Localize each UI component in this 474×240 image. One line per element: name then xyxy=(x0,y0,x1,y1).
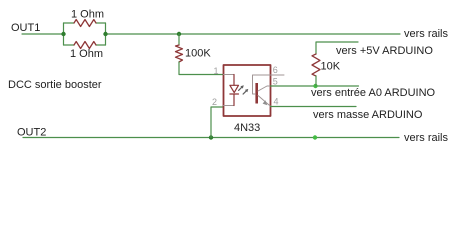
transistor Q1 emitter arrowhead xyxy=(263,100,268,105)
svg-text:vers rails: vers rails xyxy=(404,132,449,144)
photon arrow 2 xyxy=(243,90,247,94)
svg-text:2: 2 xyxy=(212,97,217,107)
junction OUT2 to pin 2 branch xyxy=(209,135,213,139)
op-amp ... optocoupler U1 4N33 body xyxy=(224,65,271,116)
junction 10K bottom xyxy=(313,84,317,88)
transistor Q1 base lead to pin 6 xyxy=(253,75,285,94)
svg-text:6: 6 xyxy=(273,65,278,75)
wire pin 4 to masse xyxy=(271,106,357,108)
junction left of parallel resistors xyxy=(61,32,65,36)
wire parallel-block left vertical xyxy=(63,23,65,45)
wire 10K bottom lead xyxy=(315,76,317,86)
resistor R1 1 Ohm (top) xyxy=(74,20,96,27)
wire parallel-block right vertical xyxy=(105,23,107,45)
svg-text:vers masse ARDUINO: vers masse ARDUINO xyxy=(313,109,423,121)
transistor Q1 base bar xyxy=(255,83,258,104)
svg-text:1 Ohm: 1 Ohm xyxy=(71,9,104,21)
svg-text:OUT2: OUT2 xyxy=(17,126,46,138)
wire OUT2 bottom rail xyxy=(23,137,399,139)
resistor R4 10K xyxy=(312,54,320,76)
svg-text:OUT1: OUT1 xyxy=(11,22,40,34)
wire main top rail xyxy=(106,33,401,35)
wire 100K top lead xyxy=(178,34,180,45)
junction at 100K tap xyxy=(177,32,181,36)
svg-text:100K: 100K xyxy=(185,48,211,60)
pin 1 internal lead xyxy=(224,74,235,76)
wire OUT1 lead xyxy=(22,33,64,35)
wire top branch right stub xyxy=(96,22,106,24)
svg-text:vers rails: vers rails xyxy=(404,28,449,40)
transistor Q1 collector lead to pin 5 xyxy=(258,86,271,91)
pin 2 internal lead xyxy=(224,105,235,107)
resistor R3 100K xyxy=(176,45,183,62)
wire OUT2 up to pin 2 xyxy=(211,107,224,138)
svg-text:1: 1 xyxy=(213,66,218,76)
svg-text:DCC sortie booster: DCC sortie booster xyxy=(8,79,102,91)
wire 100K bottom lead to pin 1 xyxy=(179,62,224,75)
svg-text:vers entrée A0 ARDUINO: vers entrée A0 ARDUINO xyxy=(311,87,436,99)
svg-text:4N33: 4N33 xyxy=(234,122,260,134)
LED D1 cathode line xyxy=(233,94,235,106)
LED D1 cathode bar xyxy=(230,93,239,95)
LED D1 triangle xyxy=(230,85,239,92)
junction on OUT2 rail (right) xyxy=(313,135,317,139)
photon arrow 1 xyxy=(239,87,243,91)
wire bottom branch left stub xyxy=(64,44,75,46)
wire pin 5 to A0 xyxy=(271,85,359,87)
resistor R2 1 Ohm (bottom) xyxy=(74,42,96,49)
wire +5V corner xyxy=(316,42,358,54)
transistor Q1 emitter lead to pin 4 xyxy=(258,96,271,107)
svg-text:vers +5V ARDUINO: vers +5V ARDUINO xyxy=(336,45,433,57)
junction right of parallel resistors xyxy=(103,32,107,36)
svg-text:1 Ohm: 1 Ohm xyxy=(70,48,103,60)
wire top branch left stub xyxy=(64,22,75,24)
svg-text:5: 5 xyxy=(273,76,278,86)
LED D1 anode line xyxy=(233,75,235,86)
svg-text:10K: 10K xyxy=(321,61,341,73)
wire bottom branch right stub xyxy=(96,44,106,46)
svg-text:4: 4 xyxy=(274,96,279,106)
